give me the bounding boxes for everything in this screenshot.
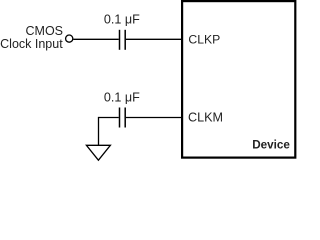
svg-text:0.1 μF: 0.1 μF [104, 90, 140, 104]
svg-text:Device: Device [252, 139, 290, 152]
svg-text:Clock Input: Clock Input [0, 37, 63, 51]
svg-text:CLKM: CLKM [188, 110, 223, 124]
svg-text:CMOS: CMOS [26, 24, 64, 38]
svg-text:CLKP: CLKP [188, 32, 220, 46]
svg-text:0.1 μF: 0.1 μF [104, 13, 140, 27]
